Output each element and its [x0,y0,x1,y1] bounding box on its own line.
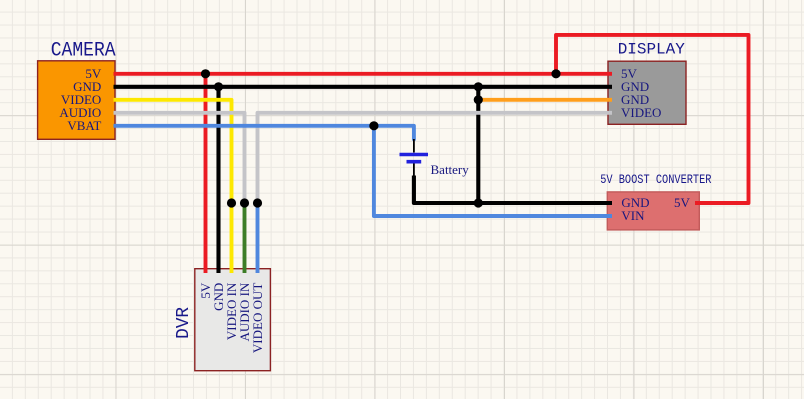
svg-text:DISPLAY: DISPLAY [618,41,685,59]
svg-text:5V: 5V [674,195,691,210]
svg-text:VBAT: VBAT [67,118,101,133]
svg-text:Battery: Battery [431,162,470,177]
svg-text:5V BOOST CONVERTER: 5V BOOST CONVERTER [600,172,712,187]
svg-text:CAMERA: CAMERA [51,40,116,63]
svg-text:VIDEO: VIDEO [621,105,661,120]
svg-text:DVR: DVR [174,307,194,339]
svg-text:VIDEO OUT: VIDEO OUT [250,283,265,353]
svg-text:VIN: VIN [621,208,645,223]
